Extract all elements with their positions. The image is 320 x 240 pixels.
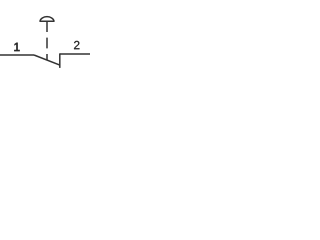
- terminal 2 lead wire: [60, 53, 90, 55]
- movable contact blade: [34, 55, 60, 65]
- switch S1 mushroom-head push-button NC contact: [0, 0, 90, 90]
- pin label 1: [14, 43, 19, 51]
- terminal 1 lead wire: [0, 54, 34, 56]
- fixed contact bar: [59, 53, 61, 68]
- actuator stem / dashed link: [46, 21, 48, 60]
- pin label 2: [74, 41, 79, 49]
- mushroom-head actuator: [39, 17, 54, 22]
